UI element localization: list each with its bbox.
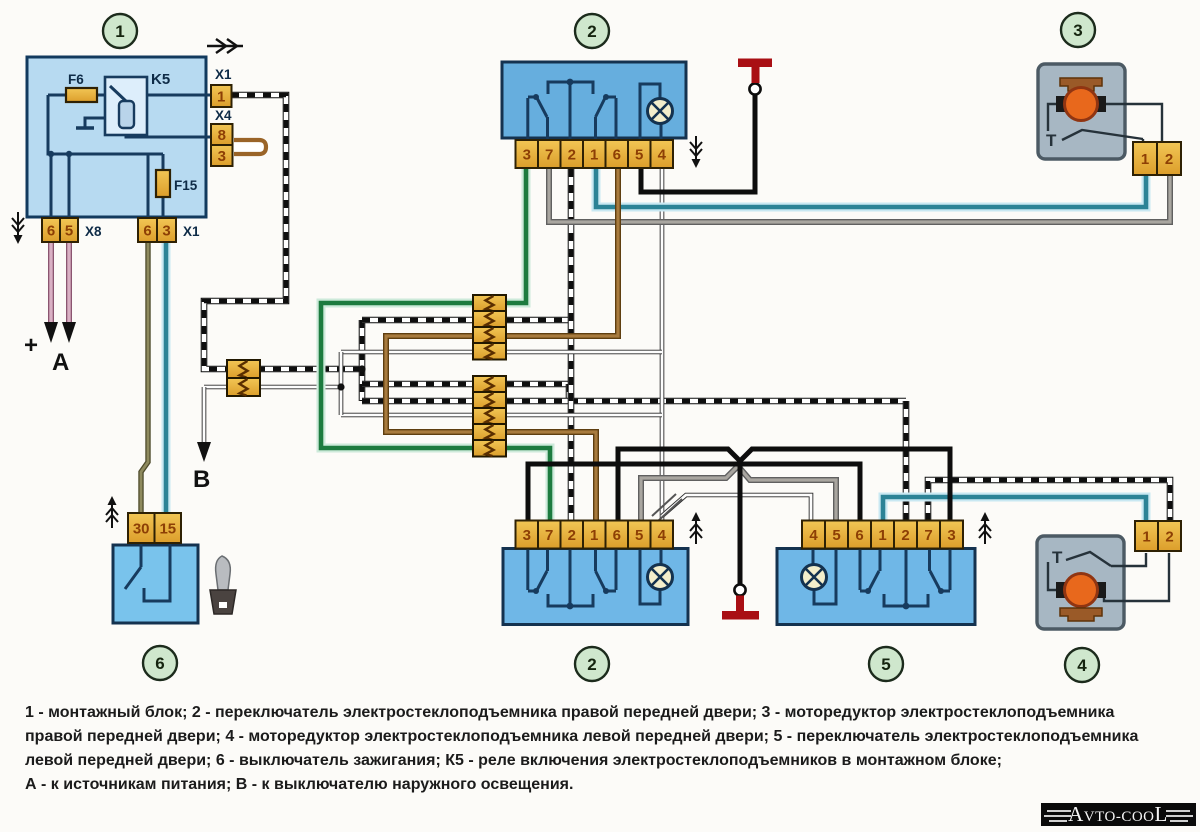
wire green: switch2 pin3 to switch2b pin7: [321, 169, 550, 521]
lamp in switch 2 top: [648, 99, 673, 124]
svg-text:6: 6: [143, 223, 151, 240]
arrowhead B: [197, 442, 211, 462]
twisted pair ticks: [652, 494, 682, 521]
callout circle 2 bottom: [575, 647, 609, 681]
callout circle 4: [1065, 648, 1099, 682]
svg-text:+: +: [24, 332, 38, 359]
svg-text:5: 5: [832, 527, 840, 544]
wire striped: jog: [566, 384, 573, 401]
ignition pins 30 15: [128, 513, 181, 543]
svg-text:X4: X4: [215, 108, 232, 123]
svg-text:4: 4: [658, 527, 667, 544]
svg-text:1: 1: [115, 22, 124, 41]
ground symbol right of switch 2 bottom: [690, 512, 702, 544]
svg-text:4: 4: [1077, 656, 1087, 675]
wire teal: montage X1 pin3 to ignition 15: [162, 242, 171, 513]
svg-text:6: 6: [155, 654, 164, 673]
svg-text:30: 30: [133, 521, 150, 538]
wire striped: stack2 row1 branch: [362, 381, 569, 388]
fuse F6: [66, 88, 97, 102]
power symbol red T: [738, 59, 772, 84]
wire white: rail link: [339, 352, 344, 415]
switch 2 bottom body: [503, 549, 688, 625]
switch 5 internals: [813, 548, 950, 606]
callout circle 6: [143, 646, 177, 680]
wire white: switch2 pin4 to switch5 pin4: [662, 495, 811, 521]
svg-text:6: 6: [855, 527, 863, 544]
callout circle 5: [869, 647, 903, 681]
svg-text:2: 2: [587, 22, 596, 41]
svg-text:2: 2: [568, 527, 576, 544]
montage block internal wiring: [48, 95, 212, 218]
svg-text:4: 4: [809, 527, 818, 544]
relay K5 contact blade: [110, 86, 128, 103]
node circle at +12V tap: [749, 83, 760, 94]
wire white: lower rail: [341, 413, 662, 418]
wire striped: switch2 top pin2 to bottom pin2: [568, 169, 575, 521]
svg-text:3: 3: [523, 147, 531, 164]
switch 2 top internals: [528, 82, 661, 140]
wire striped: junction vertical: [359, 320, 366, 401]
svg-text:7: 7: [924, 527, 932, 544]
wire black: ground node drop: [738, 460, 743, 585]
X4 mating fork: [234, 140, 266, 154]
svg-text:K5: K5: [151, 71, 170, 88]
motor 4 internals: [1048, 548, 1169, 621]
svg-text:1: 1: [217, 89, 225, 106]
wire teal: switch2 pin1 to motor3 pin1: [596, 169, 1146, 207]
svg-text:3: 3: [523, 527, 531, 544]
svg-text:6: 6: [613, 147, 621, 164]
ignition switch body: [113, 545, 198, 623]
relay K5 coil: [119, 101, 134, 128]
svg-text:2: 2: [1165, 151, 1173, 168]
montage block body (1): [27, 57, 206, 217]
wire black: switch2b pin6 to switch5 pin3 (via dip at ground node): [618, 449, 950, 521]
lamp in switch 5: [802, 565, 827, 590]
ground symbol right of switch 2 top: [690, 136, 702, 168]
svg-text:8: 8: [218, 127, 226, 144]
lamp in switch 2 bottom: [648, 565, 673, 590]
ground bar inside block: [76, 126, 94, 130]
svg-text:AVTO-COOL: AVTO-COOL: [1068, 803, 1168, 826]
svg-text:1: 1: [590, 527, 598, 544]
switch 2 bottom pin strip: [516, 521, 674, 549]
fuse F15: [156, 170, 170, 197]
svg-text:F6: F6: [68, 72, 84, 87]
junction dots in block: [48, 151, 54, 157]
svg-text:5: 5: [65, 223, 73, 240]
svg-text:5: 5: [635, 527, 643, 544]
svg-text:7: 7: [545, 147, 553, 164]
continuation arrow top: [207, 39, 243, 53]
wire white: upper rail: [341, 350, 662, 355]
svg-text:X1: X1: [183, 224, 200, 239]
wire black: switch2b pin3 to switch5 pin6: [528, 464, 860, 521]
inline connector pair X (left): [227, 360, 260, 396]
switch 5 pin strip: [802, 521, 963, 549]
node circle above ground: [734, 584, 745, 595]
junction dot striped: [358, 365, 365, 372]
svg-text:5: 5: [881, 655, 890, 674]
svg-text:1: 1: [1142, 529, 1150, 546]
svg-text:X8: X8: [85, 224, 102, 239]
connector X4 pin 8: [211, 124, 233, 145]
wire brown: switch2 pin6 to switch2b pin1: [386, 169, 618, 521]
switch 2 bottom internals: [528, 548, 661, 606]
svg-text:7: 7: [545, 527, 553, 544]
motor 4 body: [1037, 536, 1124, 629]
svg-text:3: 3: [1073, 21, 1082, 40]
connector X1 pin 1: [211, 85, 232, 107]
wire black: switch2 pin5 to +12V tap: [641, 95, 755, 192]
svg-text:2: 2: [568, 147, 576, 164]
wire pink: X8 pin6 to power A: [48, 242, 54, 324]
svg-text:4: 4: [658, 147, 667, 164]
motor 3 body: [1038, 64, 1125, 159]
motor 3 internals: [1046, 78, 1162, 150]
connector X8 pins: [42, 218, 78, 242]
callout circle 3: [1061, 13, 1095, 47]
wire striped: switch5 pin7 to motor4 pin2: [928, 480, 1170, 521]
wire striped: montage X1 pin1 to junction: [204, 95, 362, 369]
svg-text:2: 2: [1165, 529, 1173, 546]
wire teal: switch5 pin1 to motor4 pin1: [883, 497, 1146, 521]
svg-text:T: T: [1046, 131, 1057, 150]
wire olive: montage X1 pin6 to ignition 30: [141, 242, 148, 513]
relay K5 box: [105, 77, 147, 135]
ground symbol left of X8: [12, 212, 24, 244]
svg-text:X1: X1: [215, 67, 232, 82]
ground symbol right of switch 5: [979, 512, 991, 544]
motor 3 connector pins: [1133, 142, 1181, 175]
connector X4 pin 3: [211, 145, 233, 166]
motor 4 connector pins: [1135, 521, 1181, 551]
wire white: branch to B: [202, 387, 207, 444]
ground symbol red T: [722, 596, 759, 620]
svg-text:2: 2: [901, 527, 909, 544]
svg-text:T: T: [1052, 548, 1063, 567]
inline connector stack 1 (4 blocks): [473, 295, 506, 360]
svg-text:15: 15: [159, 521, 176, 538]
svg-text:1: 1: [878, 527, 886, 544]
svg-text:B: B: [193, 466, 210, 493]
ignition internals: [125, 543, 170, 601]
connector X1 bottom pins: [138, 218, 176, 242]
svg-text:6: 6: [613, 527, 621, 544]
svg-text:2: 2: [587, 655, 596, 674]
arrowhead A2: [62, 322, 76, 343]
wire striped: drop to switch5 pin2: [903, 401, 910, 521]
callout circle 2 top: [575, 14, 609, 48]
junction dot white: [337, 383, 344, 390]
svg-text:A: A: [52, 349, 69, 376]
inline connector stack 2 (5 blocks): [473, 376, 506, 457]
switch 2 top body: [502, 62, 686, 138]
switch 5 body: [777, 549, 975, 625]
switch 2 top pin strip: [516, 140, 674, 168]
svg-text:5: 5: [635, 147, 643, 164]
wire striped: upper branch to switch2 vertical: [362, 317, 571, 324]
svg-text:3: 3: [218, 148, 226, 165]
wire pink: X8 pin5 to power A: [66, 242, 72, 324]
arrowhead A1: [44, 322, 58, 343]
wire white: switch2 pin4 top to bottom: [660, 169, 665, 521]
svg-text:3: 3: [947, 527, 955, 544]
svg-text:F15: F15: [174, 178, 198, 193]
callout circle 1: [103, 14, 137, 48]
wire gray: switch2 pin5 to switch5 pin5 via ground node: [641, 466, 836, 521]
ignition key icon: [210, 556, 236, 614]
svg-text:3: 3: [162, 223, 170, 240]
watermark logo: [1041, 803, 1196, 826]
caption text: [25, 701, 1200, 797]
wire striped: long run to switch5 pin2: [362, 398, 906, 405]
ground symbol left of ignition: [106, 496, 118, 528]
wire white: to inline connector: [204, 385, 341, 390]
svg-text:6: 6: [47, 223, 55, 240]
svg-text:1: 1: [1141, 151, 1149, 168]
svg-text:1: 1: [590, 147, 598, 164]
wire gray: switch2 pin7 to motor3 pin2: [549, 169, 1170, 222]
